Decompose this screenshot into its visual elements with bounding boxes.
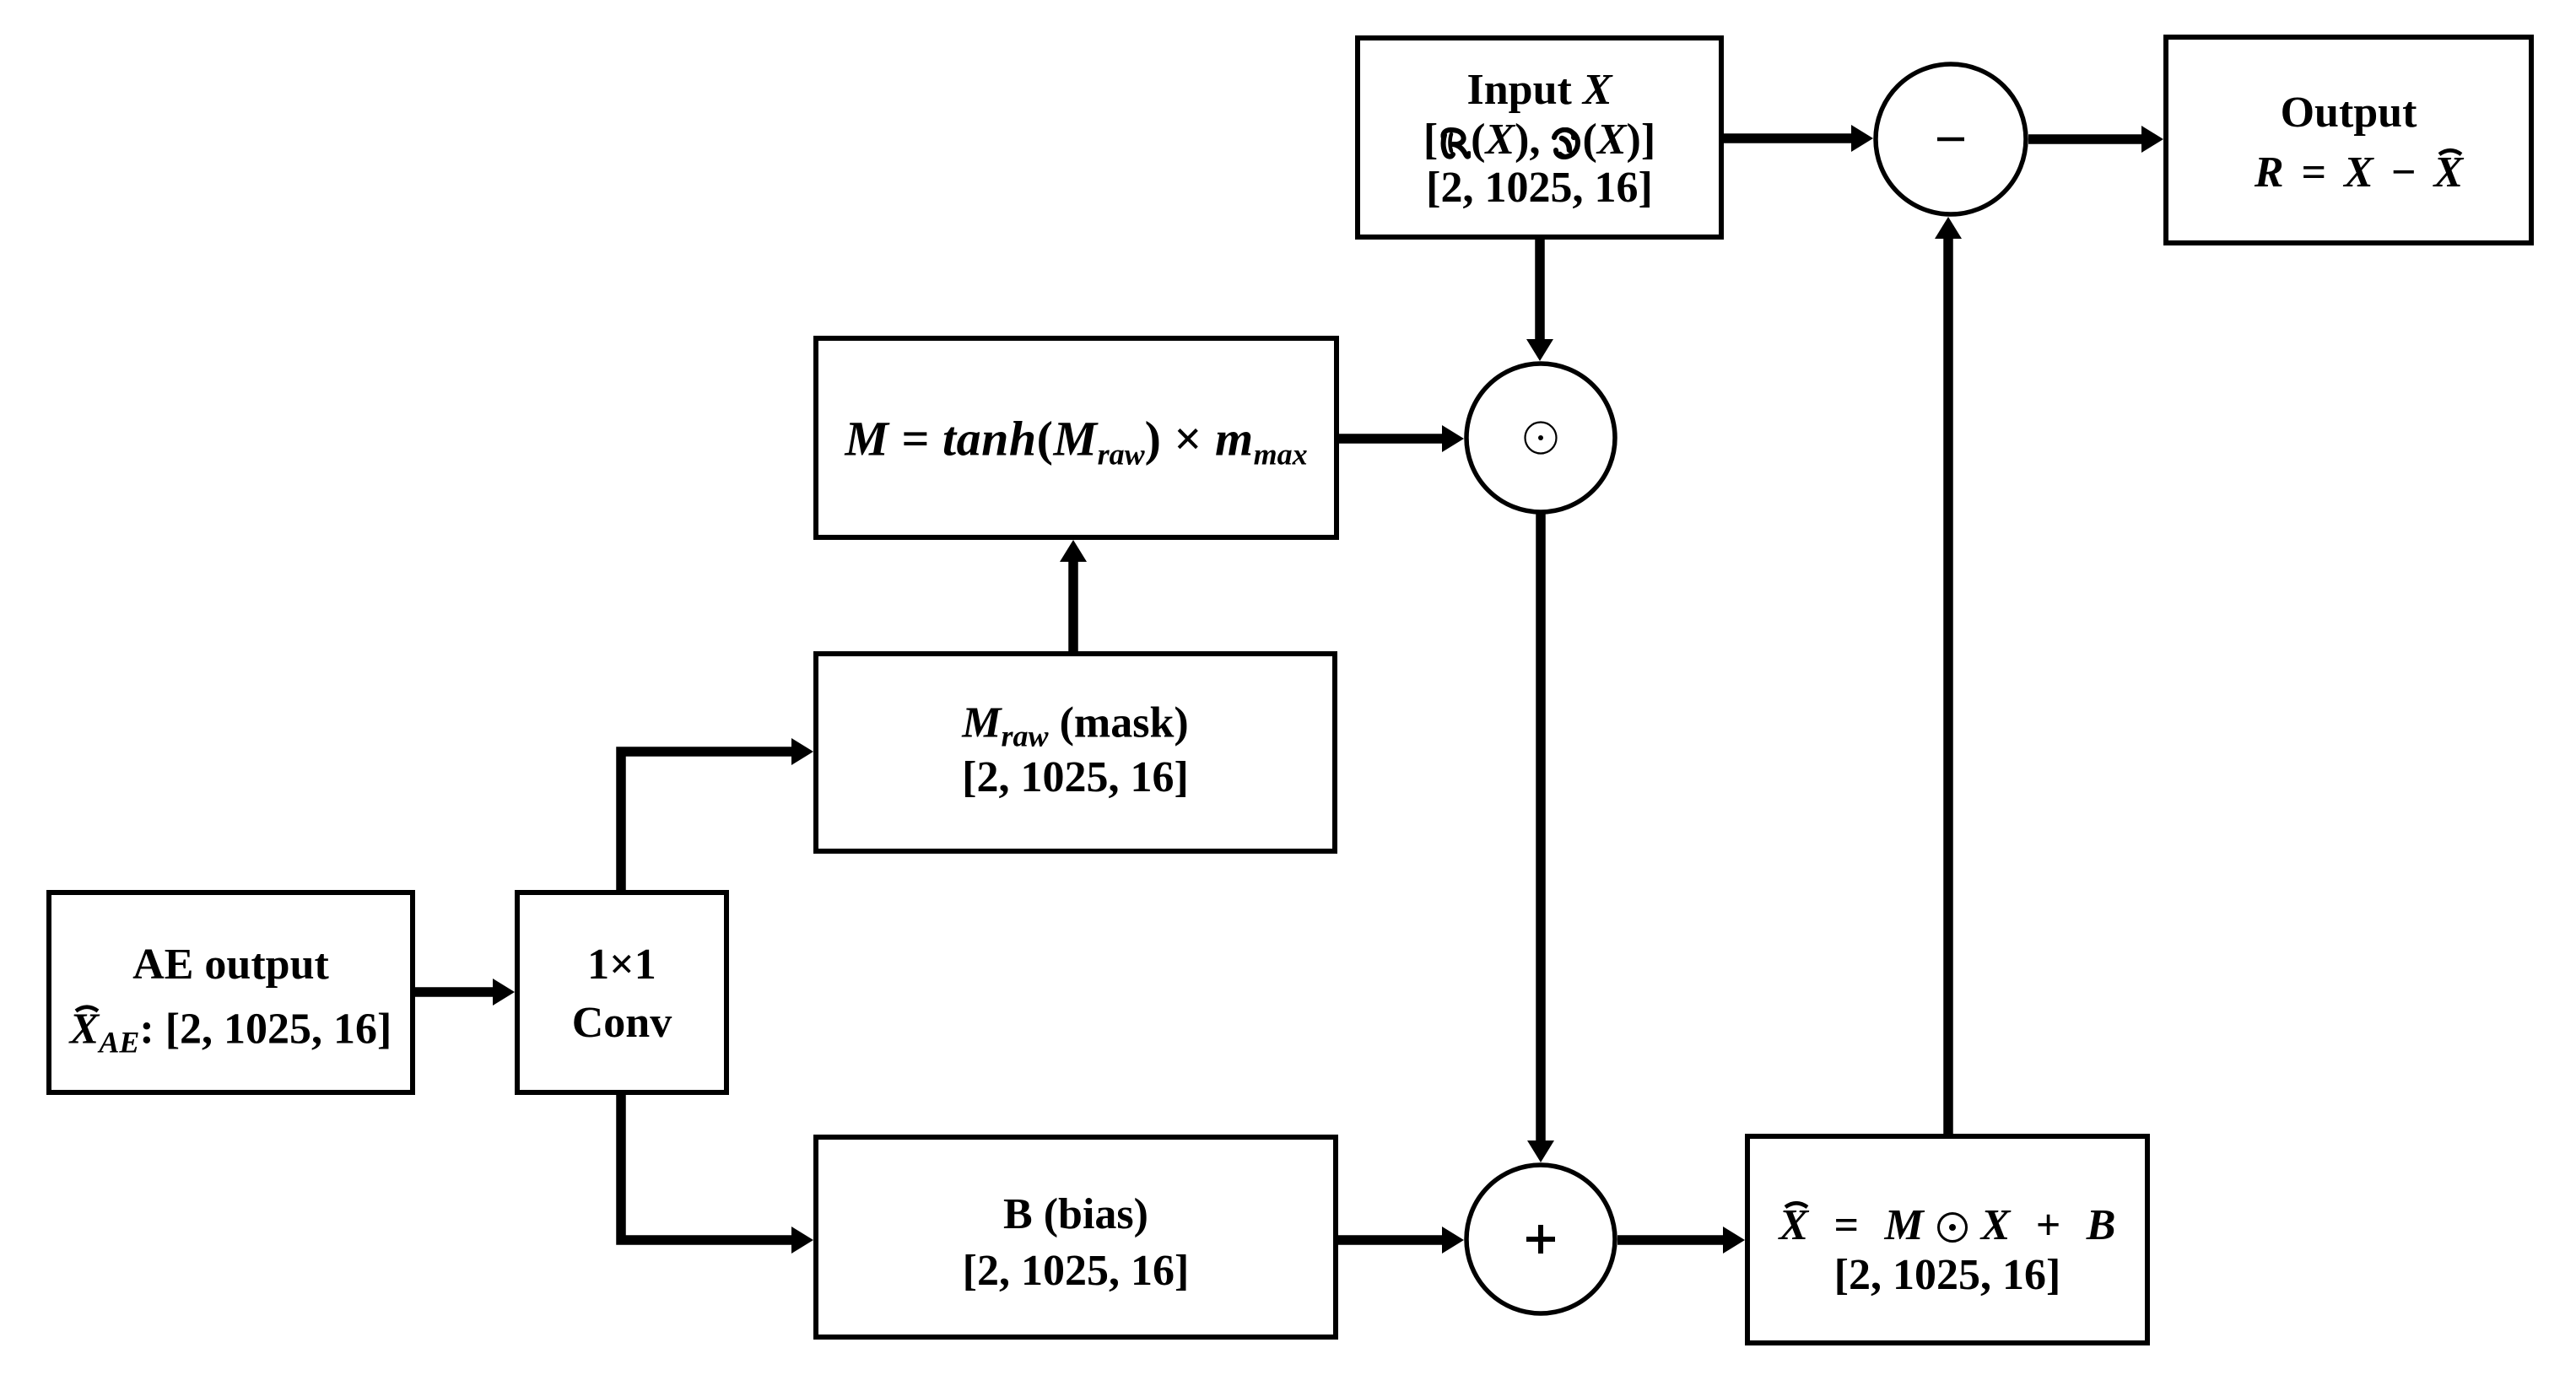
- wire: Input X box bottom down to element-wise product node: [1535, 240, 1545, 342]
- block: 1x1 Conv: [515, 890, 729, 1095]
- wire: AE output box right to 1x1 Conv box: [415, 987, 496, 997]
- block: Output: [2163, 35, 2534, 245]
- wire: subtract node to Output box: [2028, 134, 2145, 144]
- wire: B box right to sum node: [1338, 1235, 1445, 1245]
- node: sum circle: [1466, 1165, 1615, 1313]
- wire: Conv box top up then right into Mraw box: [621, 752, 795, 890]
- wire: Input X box right to subtract node: [1724, 133, 1855, 143]
- node: subtract circle: [1876, 64, 2026, 214]
- block: M = tanh(Mraw) x mmax: [813, 336, 1339, 540]
- wire: tanh box right to element-wise product node: [1339, 434, 1445, 444]
- wire: sum node right to Xhat box: [1617, 1235, 1726, 1245]
- block: Mraw mask: [813, 651, 1337, 854]
- block: B bias: [813, 1135, 1338, 1340]
- block: Xhat = M o X + B: [1745, 1134, 2150, 1345]
- wire: Mraw box top up to tanh box: [1068, 558, 1078, 651]
- block: Input X: [1355, 35, 1724, 240]
- wire: Xhat box top up to subtract node: [1943, 235, 1953, 1134]
- block: AE output: [46, 890, 415, 1095]
- wire: product node bottom down to sum node: [1536, 513, 1546, 1144]
- wire: Conv box bottom down then right into B box: [621, 1095, 795, 1240]
- node: element-wise product circle: [1466, 364, 1615, 512]
